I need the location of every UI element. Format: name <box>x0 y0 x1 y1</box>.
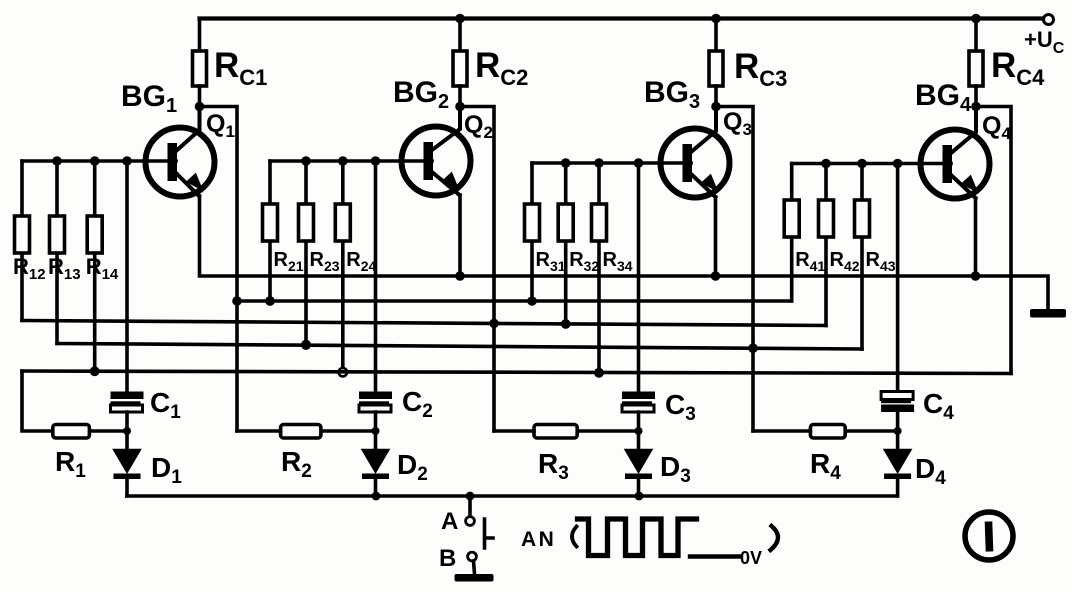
wire bus 4 (Q4 collector) <box>22 371 1011 374</box>
transistor BG3 (Q3) <box>661 107 730 198</box>
junction bus1 / Q1 feedback <box>232 296 242 306</box>
svg-text:AN: AN <box>521 528 556 551</box>
wire emitter rail <box>200 196 1049 308</box>
wire vertical C1 feed stage 1 <box>125 161 129 392</box>
resistor R3 <box>494 425 639 439</box>
junction trigger rail <box>372 492 381 501</box>
junction bus3 / Q3 feedback <box>748 343 758 353</box>
switch arm between A and B <box>485 519 494 548</box>
junction bus1 / R21 <box>265 296 275 306</box>
figure number (1) <box>965 512 1013 560</box>
resistor RC2 <box>458 19 462 52</box>
wire collector feedback Q4 <box>976 107 1011 374</box>
svg-text:A: A <box>441 508 458 535</box>
resistor R23 <box>299 204 314 241</box>
junction bus4 / R34 <box>594 368 604 378</box>
wire vertical R43 stage 4 <box>860 164 864 350</box>
resistor R41 <box>784 200 799 237</box>
capacitor C1 <box>111 392 144 432</box>
resistor R43 <box>855 200 870 237</box>
wire trigger rail <box>127 494 897 498</box>
diode D1 <box>114 431 141 496</box>
junction top rail / RC2 <box>455 14 465 24</box>
node collector Q3 <box>711 102 721 112</box>
node R1/C1/D1 <box>123 427 131 435</box>
resistor R2 <box>237 425 376 439</box>
diode D4 <box>884 431 911 496</box>
wire vertical R13 stage 1 <box>55 161 59 344</box>
wire vertical R23 stage 2 <box>304 161 308 344</box>
wire +Uc top supply rail <box>200 16 1044 20</box>
wire base rail stage 2 <box>270 159 432 163</box>
ground (emitter rail) <box>1030 309 1066 318</box>
node collector Q4 <box>971 102 981 112</box>
resistor RC4 <box>974 19 978 52</box>
resistor R12 <box>15 216 30 253</box>
svg-text:B: B <box>439 545 456 572</box>
wire collector feedback Q3 <box>716 107 753 432</box>
junction trigger rail <box>466 492 475 501</box>
resistor R42 <box>819 200 834 237</box>
junction bus3 / R23 <box>301 340 311 350</box>
wire vertical C2 feed stage 2 <box>374 161 378 392</box>
wire vertical C4 feed stage 4 <box>896 164 900 393</box>
node R3/C3/D3 <box>635 427 643 435</box>
wire vertical R21 stage 2 <box>268 161 272 301</box>
node collector Q2 <box>455 102 465 112</box>
diode D2 <box>362 431 389 496</box>
resistor R21 <box>263 204 278 241</box>
wire vertical R42 stage 4 <box>824 164 828 326</box>
transistor BG1 (Q1) <box>146 107 215 197</box>
wire vertical R34 stage 3 <box>597 163 601 373</box>
junction top rail / RC3 <box>711 14 721 24</box>
junction emitter rail <box>455 271 465 281</box>
wire collector feedback Q1 <box>200 107 238 432</box>
wire bus4 left drop to R1 <box>22 371 53 431</box>
label ) <box>771 526 779 550</box>
transistor BG2 (Q2) <box>402 107 471 196</box>
junction bus4 / R14 <box>90 366 100 376</box>
resistor R31 <box>525 204 540 241</box>
node R4/C4/D4 <box>894 427 902 435</box>
diode D3 <box>625 431 652 496</box>
terminal A <box>468 496 472 517</box>
svg-text:0V: 0V <box>740 548 762 568</box>
junction trigger rail <box>635 492 644 501</box>
junction emitter rail <box>971 271 981 281</box>
resistor R24 <box>335 204 350 241</box>
waveform pulses <box>578 519 697 556</box>
capacitor C2 <box>359 392 392 432</box>
resistor R32 <box>558 204 573 241</box>
resistor RC1 <box>198 19 202 52</box>
wire base rail stage 3 <box>532 161 691 165</box>
node R2/C2/D2 <box>372 427 380 435</box>
resistor R4 <box>753 425 898 439</box>
transistor BG4 (Q4) <box>921 107 990 199</box>
terminal B <box>468 552 477 561</box>
wire bus 1 (Q1 collector) <box>237 299 792 303</box>
resistor R13 <box>50 216 65 253</box>
junction bus1 / R31 <box>527 296 537 306</box>
capacitor C4 <box>881 392 914 432</box>
wire bus 2 (Q2 collector) <box>22 321 826 326</box>
wire vertical C3 feed stage 3 <box>637 163 641 392</box>
wire collector feedback Q2 <box>460 107 494 432</box>
resistor R1 <box>53 425 127 439</box>
wire bus 3 (Q3 collector) <box>57 344 862 350</box>
wire vertical R41 stage 4 <box>790 164 794 302</box>
wire vertical R31 stage 3 <box>530 163 534 301</box>
junction bus2 / R32 <box>561 319 571 329</box>
wire vertical R32 stage 3 <box>564 163 568 324</box>
node collector Q1 <box>195 102 205 112</box>
junction top rail / RC4 <box>971 14 981 24</box>
resistor R34 <box>592 204 607 241</box>
junction bus2 / Q2 feedback <box>489 319 499 329</box>
wire base rail stage 1 <box>22 159 176 163</box>
junction emitter rail <box>711 271 721 281</box>
terminal +Uc <box>1044 15 1054 25</box>
wire vertical R24 stage 2 <box>341 161 345 372</box>
wire base rail stage 4 <box>792 162 951 166</box>
capacitor C3 <box>622 392 655 432</box>
resistor RC3 <box>714 19 718 52</box>
wire vertical R14 stage 1 <box>93 161 97 371</box>
resistor R14 <box>87 216 102 253</box>
waveform 0V baseline <box>690 554 740 558</box>
wire vertical R12 stage 1 <box>20 161 24 321</box>
ground (input B) <box>474 561 475 574</box>
